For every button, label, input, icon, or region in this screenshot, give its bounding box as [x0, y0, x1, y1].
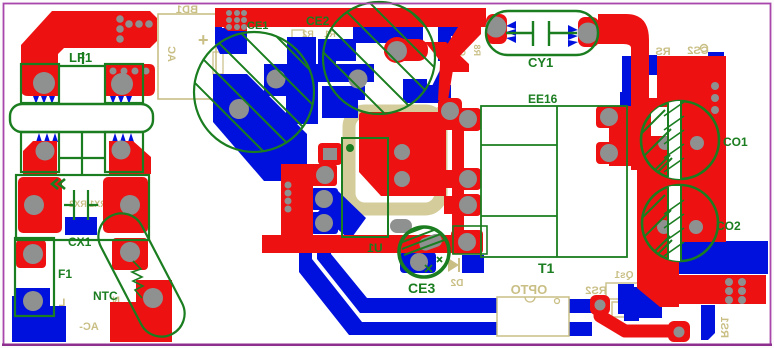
- bottom pad right of via pad: [403, 79, 427, 100]
- top copper strip: [215, 8, 486, 27]
- svg-text:NTC: NTC: [93, 289, 118, 303]
- via pad end of RS2 trace: [668, 321, 690, 342]
- svg-text:+: +: [198, 30, 209, 50]
- via holes CO1: [658, 136, 672, 150]
- via dots right pour column: [711, 82, 719, 90]
- via hole RS2 trace end: [674, 327, 685, 338]
- pin marks LF1 bottom-right pad: [112, 133, 134, 142]
- bottom pad block B1: [287, 37, 316, 68]
- via hole RS2 pad: [595, 300, 606, 311]
- opto pin-1 mark: [555, 299, 560, 304]
- svg-text:U1: U1: [367, 241, 383, 255]
- svg-text:Qs1: Qs1: [614, 270, 633, 281]
- bottom pour right of CE1: [264, 64, 318, 124]
- bottom pour under CE1 (diagonal): [213, 74, 307, 181]
- via hole CX1 right: [120, 195, 140, 215]
- via hole top middle: [387, 41, 407, 61]
- via dots arch L pattern: [116, 15, 124, 23]
- top trace diagonal to D1 pad: [438, 64, 454, 100]
- inductor LF1 pad bottom-right: [109, 141, 151, 174]
- transformer T1 right pad 2: [596, 142, 620, 164]
- bottom bar row3: [322, 86, 365, 100]
- via pad with ring: [384, 39, 428, 61]
- bottom tab right of trace: [646, 55, 657, 75]
- svg-text:EE16: EE16: [528, 92, 558, 106]
- wire RS2 trace: [600, 307, 679, 331]
- transistor Qs1 outline box: [453, 226, 487, 254]
- via holes CY1: [486, 17, 507, 38]
- capacitor CE3 hatch: [398, 223, 450, 255]
- transformer T1 right pad 1: [596, 106, 620, 128]
- svg-text:CE2: CE2: [306, 14, 330, 28]
- bottom bar near C4: [438, 26, 467, 61]
- resistor RS2 pad: [590, 295, 610, 315]
- bridge rectifier BD1 outline: [158, 14, 216, 99]
- via hole D1: [441, 102, 459, 120]
- bottom-right red band: [666, 275, 766, 304]
- bottom pad RS2 b: [638, 286, 652, 312]
- wire bottom trace A: [299, 252, 512, 335]
- IC U1 outline: [342, 138, 388, 237]
- pin marks CY1 left: [506, 21, 516, 43]
- transformer T1 left pad 3: [455, 194, 481, 216]
- resistor outline near RS2: [612, 302, 656, 317]
- transformer T1 left pad 4: [451, 230, 483, 254]
- via dots heatsink column: [285, 182, 292, 189]
- bottom blob below row3: [322, 100, 358, 118]
- capacitor CO2 hatch: [612, 183, 672, 268]
- via hole F1 top: [23, 244, 43, 264]
- inductor LF1 pad box 3: [21, 132, 59, 172]
- capacitor CY1 pad left: [486, 14, 507, 44]
- svg-text:AC: AC: [165, 46, 177, 62]
- via hole under CE2: [349, 70, 368, 89]
- svg-text:F1: F1: [58, 267, 72, 281]
- svg-text:R8: R8: [472, 44, 482, 56]
- via holes T1 left column: [459, 110, 477, 128]
- svg-text:T1: T1: [538, 260, 555, 276]
- bottom bar below CO2: [701, 305, 715, 340]
- polarity mark: [52, 179, 65, 189]
- bottom bar above via pad: [353, 26, 423, 43]
- resistor outline near CE1 top: [292, 30, 304, 45]
- capacitor CE1 outline: [194, 32, 314, 152]
- bottom pour right band: [679, 231, 768, 274]
- via dots bottom-right band: [725, 278, 733, 286]
- via holes CO2: [657, 220, 671, 234]
- svg-text:D2: D2: [450, 278, 463, 289]
- via hole NTC bottom: [143, 288, 163, 308]
- inductor LF1 pad box 4: [105, 132, 143, 172]
- via hole LF1 pad 4: [112, 141, 131, 160]
- opto top notch: [525, 297, 535, 302]
- via hole LF1 pad 2: [111, 73, 133, 95]
- bottom bar left of D1: [405, 85, 451, 103]
- bottom sliver above right pour: [708, 52, 724, 59]
- opto U2 body: [497, 297, 569, 336]
- via hole under CE1 left: [267, 70, 286, 89]
- capacitor CY1 outline: [486, 11, 598, 55]
- capacitor CX1 outline: [16, 175, 149, 240]
- transistor pads bottom copper: [311, 188, 338, 210]
- svg-text:CY1: CY1: [528, 55, 553, 70]
- IC U1 pin1 dot: [346, 144, 354, 152]
- inductor LF1 pad box 1: [21, 64, 59, 103]
- capacitor CX1 pad right: [103, 177, 148, 233]
- wire CY1 to right pour: [598, 14, 649, 170]
- thermistor NTC bottom pad and pour: [110, 280, 172, 342]
- inductor LF1 pad bottom-left: [23, 141, 57, 174]
- top trace strip to D1: [440, 27, 481, 64]
- svg-text:CE1: CE1: [247, 20, 268, 32]
- fuse F1 top pad: [16, 240, 46, 268]
- svg-text:CO2: CO2: [716, 219, 741, 233]
- capacitor CX1 symbol: [64, 190, 98, 220]
- capacitor CY1 pad right: [578, 17, 599, 47]
- bottom pad RS2 a: [618, 284, 634, 314]
- transformer T1 outline: [481, 106, 627, 257]
- thermistor NTC outline: [90, 205, 192, 344]
- via hole LF1 pad 1: [33, 72, 55, 94]
- capacitor CE2 hatch: [287, 0, 513, 146]
- bottom C-shaped pour: [318, 39, 374, 82]
- wire T1 right pads to pour: [609, 106, 656, 166]
- resistor outline near Qs1: [606, 283, 660, 299]
- resistor outline near CE1 left: [213, 52, 223, 74]
- thermistor NTC zigzag: [132, 261, 143, 298]
- bottom diagonal near R8: [426, 60, 458, 98]
- svg-text:OPTO: OPTO: [511, 282, 548, 297]
- capacitor CO1 stripe: [651, 98, 684, 184]
- pin marks CY1 right: [568, 25, 578, 47]
- svg-text:RS1: RS1: [718, 317, 730, 338]
- via holes T1 right column: [600, 108, 618, 126]
- capacitor CY1 symbol: [506, 21, 577, 46]
- bottom copper pour AC- corner: [12, 296, 66, 342]
- smd pad gray capsule: [390, 219, 412, 233]
- capacitor CO2 stripe: [664, 186, 684, 262]
- transformer T1 left pad 1: [455, 108, 481, 131]
- via hole under CE1 band: [229, 99, 249, 119]
- via hole NTC top: [120, 242, 140, 262]
- top copper right pour: [637, 56, 726, 307]
- via dots LF1 pad 2 row: [110, 68, 117, 75]
- via holes U1 block: [394, 144, 410, 160]
- wire diagonal from via pad: [425, 42, 469, 72]
- capacitor CE2 outline: [323, 2, 435, 114]
- via hole LF1 pad 3: [36, 142, 55, 161]
- pin mark ring top right: [701, 45, 708, 52]
- wire bottom trace B: [317, 252, 512, 313]
- bottom bar left of top-right trace: [622, 56, 635, 108]
- svg-text:CO1: CO1: [723, 135, 748, 149]
- capacitor CX1 pad left: [18, 177, 62, 233]
- svg-text:AC-: AC-: [79, 321, 99, 333]
- svg-text:CX1: CX1: [68, 235, 92, 249]
- bottom trace right of opto: [624, 287, 639, 321]
- diode D1 pad: [438, 98, 462, 124]
- capacitor CE3 pad: [400, 252, 436, 273]
- smd pad capsule in CE3: [418, 232, 444, 252]
- thermistor NTC top pad: [112, 238, 148, 270]
- pin marks LF1 bottom-left pad: [36, 133, 58, 142]
- bottom diagonal band under U1: [318, 190, 366, 240]
- IC U1 top copper block: [359, 112, 446, 196]
- fuse F1 outline: [15, 238, 54, 316]
- smd pad gray square: [323, 148, 337, 160]
- capacitor CX1 bottom pad: [65, 217, 97, 235]
- bottom pad near Qs1: [637, 300, 662, 318]
- top copper arch AC input: [21, 11, 157, 96]
- via hole F1 bottom: [23, 291, 43, 311]
- pin marks LF1 top-left pad: [33, 96, 55, 104]
- pad with gray square: [318, 143, 342, 165]
- capacitor CO1 outline: [641, 101, 719, 179]
- capacitor CE1 hatch: [158, 0, 400, 186]
- via grid strip left block: [226, 10, 232, 16]
- via hole CX1 left: [24, 195, 44, 215]
- via hole CE3: [410, 253, 428, 271]
- fuse F1 bottom pad: [16, 288, 50, 318]
- inductor LF1 pad box 2: [105, 64, 143, 103]
- svg-text:BD1: BD1: [176, 4, 198, 16]
- wire T1 left pads connector: [452, 112, 464, 254]
- svg-text:CE3: CE3: [408, 280, 435, 296]
- pin marks LF1 top-right pad: [110, 96, 132, 104]
- via hole heatsink pads: [316, 166, 334, 184]
- svg-text:LF1: LF1: [69, 50, 92, 65]
- bottom trace under CE1 top: [215, 14, 247, 54]
- top copper strip left block: [221, 8, 247, 31]
- transistor heatsink pour (C shape): [281, 164, 313, 253]
- inductor LF1 body: [10, 104, 153, 132]
- inductor LF1 pad block top-right: [105, 64, 155, 96]
- bottom pad above T1 right: [620, 92, 642, 106]
- opto U2 right pad 2: [569, 322, 592, 336]
- IC body outline (thick khaki ring): [349, 111, 441, 209]
- bottom red band: [262, 235, 455, 253]
- diode D2 symbol: [448, 258, 459, 272]
- wire U1 block to T1 pads: [444, 110, 458, 130]
- bottom pad under D2: [462, 255, 484, 273]
- capacitor CE3 plus marks: [425, 257, 442, 272]
- capacitor CO2 outline: [642, 185, 718, 261]
- transformer T1 left pad 2: [455, 168, 481, 190]
- wire LF1 center links: [59, 52, 105, 175]
- bottom border accent: [2, 344, 772, 347]
- capacitor CE3 outline: [399, 227, 449, 277]
- opto U2 right pad 1: [569, 299, 592, 313]
- transformer T1 divider: [481, 106, 557, 257]
- capacitor CO1 hatch: [612, 95, 672, 185]
